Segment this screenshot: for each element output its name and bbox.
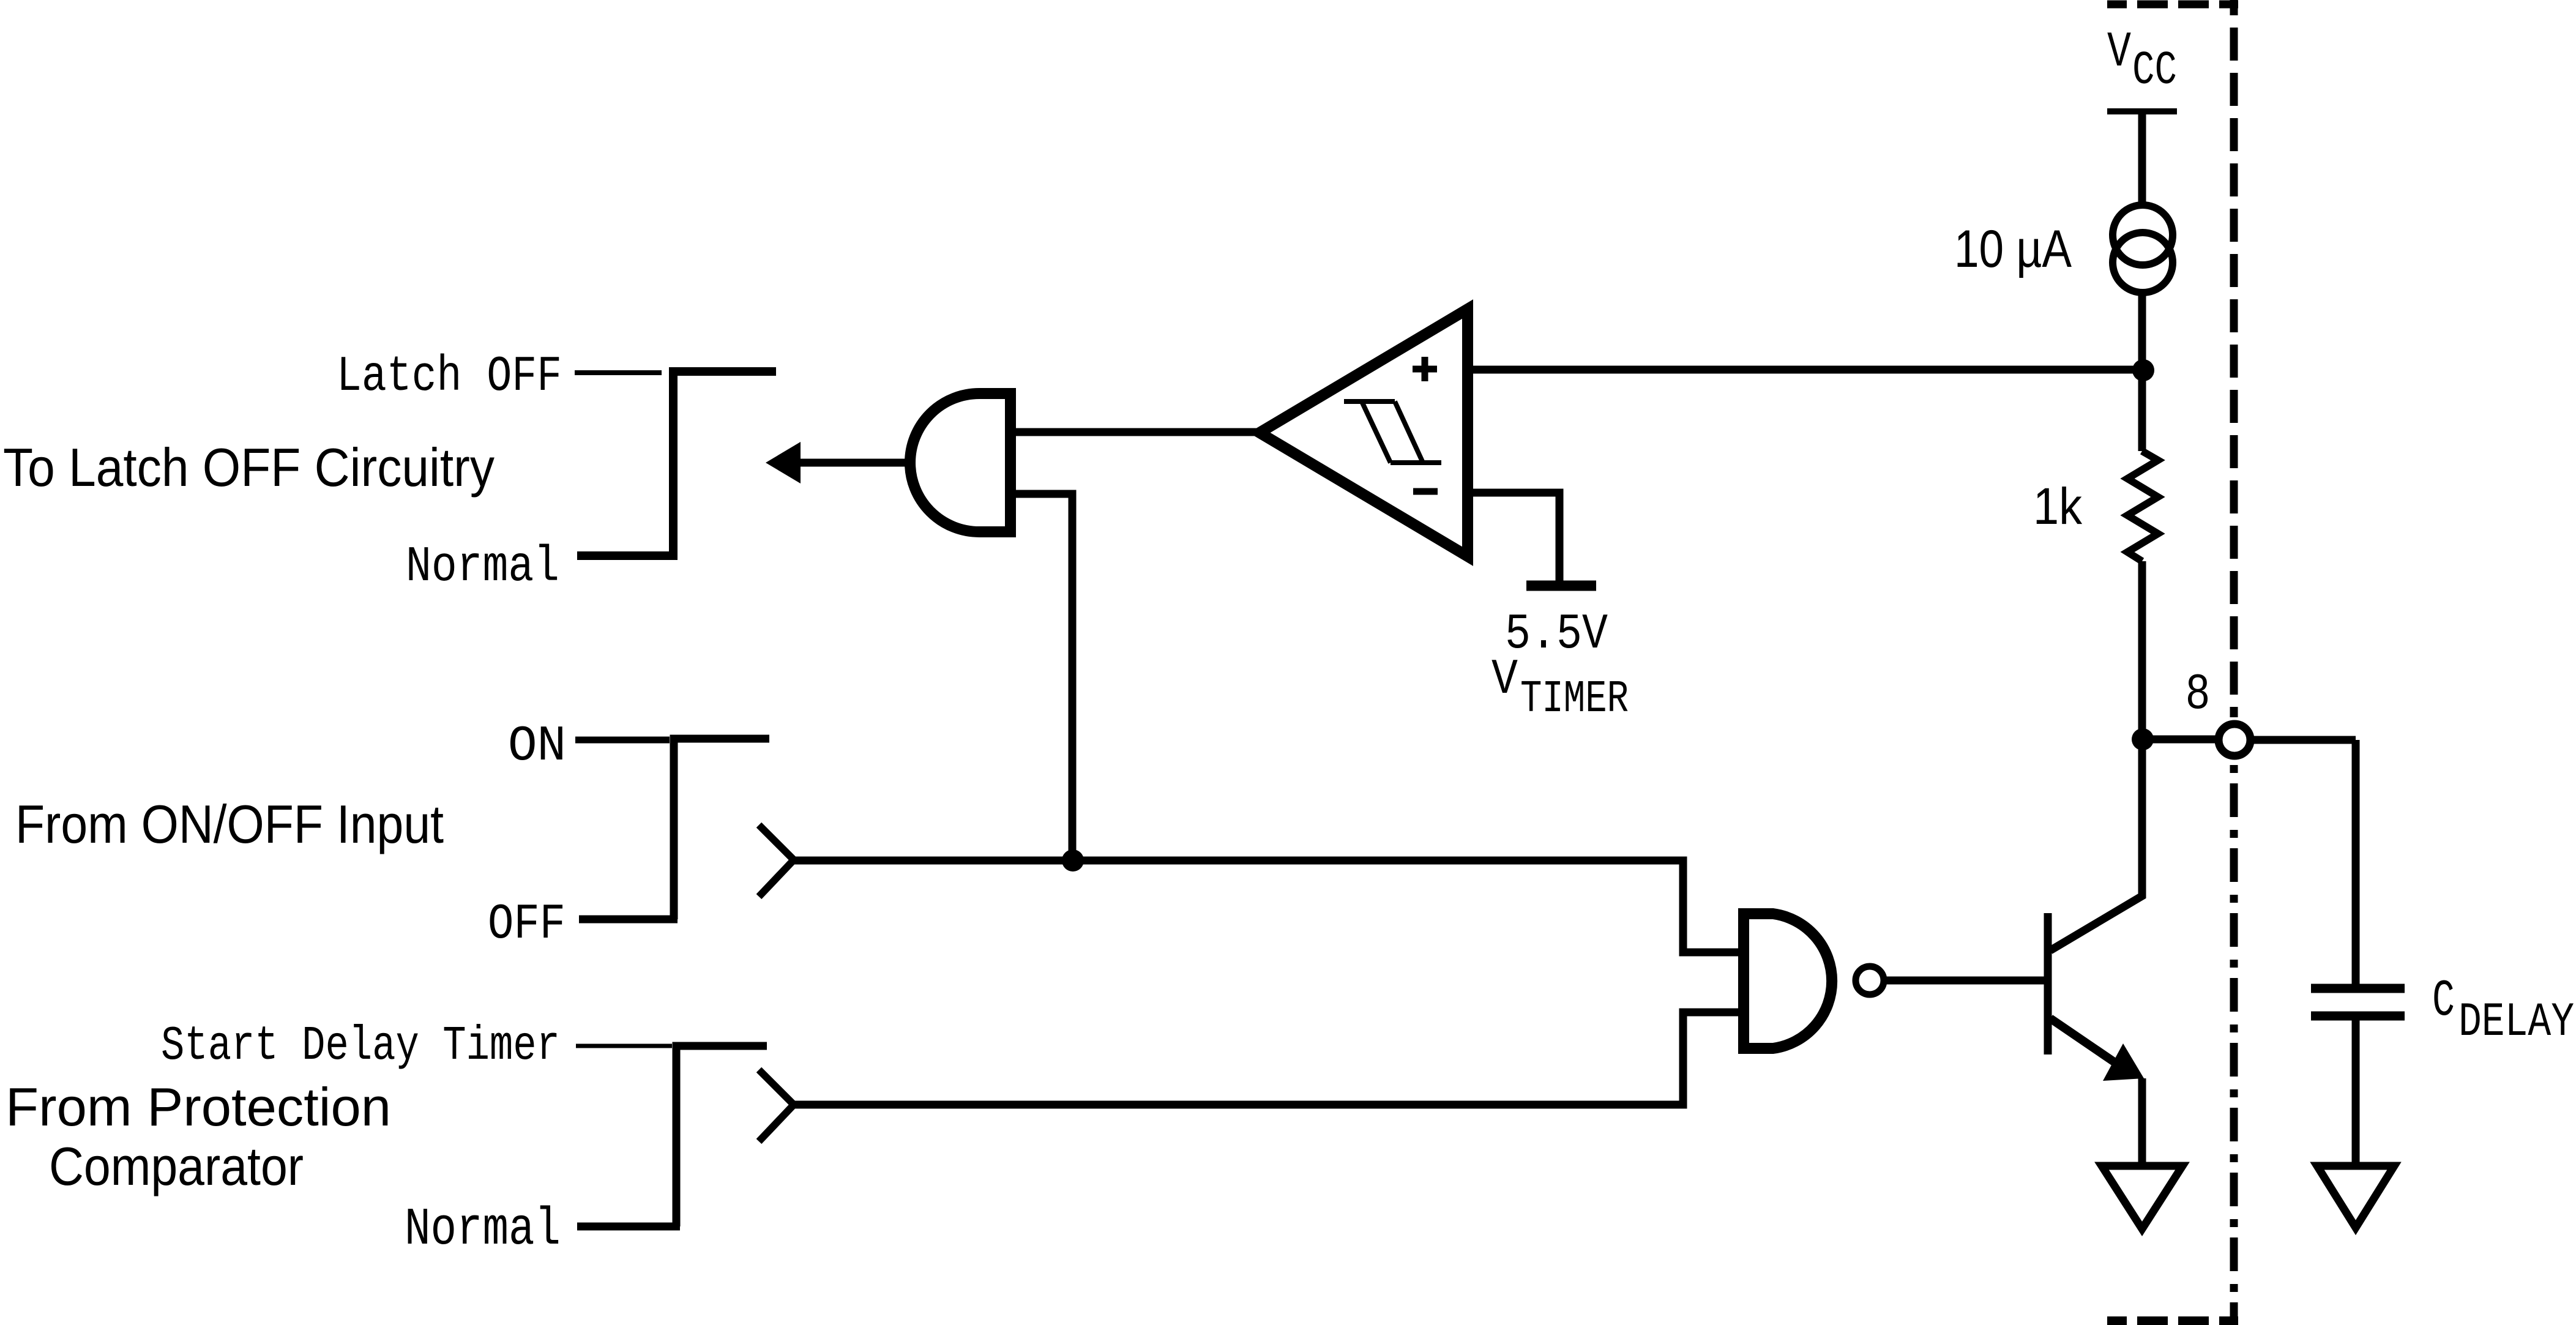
svg-text:C: C xyxy=(2432,972,2455,1031)
wire bracket protection comparator input xyxy=(676,1046,767,1226)
svg-text:1k: 1k xyxy=(2033,477,2083,535)
svg-text:Normal: Normal xyxy=(405,1200,561,1260)
svg-text:V: V xyxy=(1491,651,1518,708)
wire lead from Start Delay Timer label xyxy=(576,1044,672,1048)
svg-text:CC: CC xyxy=(2132,45,2177,98)
wire resistor to node B xyxy=(2138,561,2146,739)
resistor R1 1k xyxy=(2127,451,2158,561)
ground symbol for C_DELAY xyxy=(2317,1166,2394,1228)
pin + of comparator xyxy=(1413,357,1437,381)
wire protection to NAND bottom input xyxy=(794,1012,1740,1105)
wire AND bottom input down to ON/OFF node xyxy=(1015,494,1072,856)
transistor Q1 collector stroke xyxy=(2050,739,2142,950)
wire AND gate output xyxy=(797,459,911,467)
capacitor C_DELAY bottom plate xyxy=(2311,1012,2405,1021)
wire pin 8 to C_DELAY xyxy=(2253,736,2356,744)
node A junction dot xyxy=(2132,359,2154,381)
wire bracket for latch inputs (stub and vertical) xyxy=(673,371,776,560)
wire C_DELAY to ground xyxy=(2352,1020,2360,1166)
node junction dot on ON/OFF wire xyxy=(1062,849,1084,872)
wire down to C_DELAY xyxy=(2352,740,2360,987)
and-gate U1 (mirrored) xyxy=(910,394,1010,532)
IC boundary dashed border bottom xyxy=(2107,1316,2238,1325)
IC boundary dashed border vertical xyxy=(2230,0,2238,717)
ground symbol for Q1 emitter xyxy=(2102,1166,2182,1229)
svg-text:ON: ON xyxy=(508,718,566,775)
svg-text:OFF: OFF xyxy=(488,896,566,953)
pin 8 open circle xyxy=(2219,724,2250,756)
wire Q1 emitter to ground xyxy=(2138,1078,2146,1166)
svg-text:V: V xyxy=(2107,24,2131,81)
transistor Q1 emitter stroke xyxy=(2050,1018,2118,1064)
svg-text:5.5V: 5.5V xyxy=(1505,606,1608,663)
chevron input mark protection xyxy=(759,1070,794,1141)
wire VCC to current source xyxy=(2138,114,2146,206)
svg-text:Normal: Normal xyxy=(406,539,559,595)
current source I1 10uA xyxy=(2113,205,2173,265)
svg-text:From ON/OFF Input: From ON/OFF Input xyxy=(15,794,444,854)
wire NAND output to Q1 base xyxy=(1884,977,2045,985)
wire bracket ON/OFF input xyxy=(674,739,769,919)
svg-text:To Latch OFF Circuitry: To Latch OFF Circuitry xyxy=(3,437,495,498)
svg-text:Start Delay Timer: Start Delay Timer xyxy=(161,1018,560,1073)
arrowhead to latch off circuitry xyxy=(766,442,801,483)
wire lead from ON label xyxy=(575,737,670,744)
wire lead from Normal label (bottom) xyxy=(577,1223,680,1231)
capacitor C_DELAY top plate xyxy=(2311,984,2405,993)
wire lead from Latch OFF label xyxy=(575,370,662,375)
wire node A to resistor xyxy=(2138,370,2146,451)
svg-text:Latch OFF: Latch OFF xyxy=(337,348,562,405)
nand-gate output bubble xyxy=(1856,966,1884,995)
svg-text:From Protection: From Protection xyxy=(6,1077,391,1137)
transistor Q1 base bar xyxy=(2044,913,2052,1054)
transistor Q1 emitter arrowhead xyxy=(2103,1043,2144,1081)
svg-text:8: 8 xyxy=(2186,664,2209,718)
pin - of comparator xyxy=(1413,488,1438,495)
IC boundary dashed border top xyxy=(2107,1,2238,9)
wire - input to bias stub xyxy=(1473,493,1559,581)
svg-text:DELAY: DELAY xyxy=(2458,996,2574,1050)
node B junction dot xyxy=(2132,728,2154,750)
power VCC T-bar xyxy=(2107,108,2177,114)
comparator U2 xyxy=(1260,309,1468,556)
wire + input from timer node xyxy=(1473,366,2143,374)
wire ON/OFF to NAND top input xyxy=(794,860,1740,952)
svg-text:10 µA: 10 µA xyxy=(1954,220,2072,278)
wire node B to pin 8 xyxy=(2142,736,2216,744)
wire current source to node A xyxy=(2138,293,2146,373)
bias T-bar 5.5V xyxy=(1526,581,1596,591)
wire lead from Normal label (top) xyxy=(577,551,678,560)
hysteresis symbol inside comparator xyxy=(1344,401,1441,463)
svg-text:Comparator: Comparator xyxy=(49,1136,304,1196)
nand-gate U3 xyxy=(1744,914,1832,1048)
wire lead from OFF label xyxy=(579,916,678,924)
wire comparator output to AND input xyxy=(1014,428,1258,436)
chevron input mark ON/OFF xyxy=(759,825,794,897)
svg-text:TIMER: TIMER xyxy=(1520,674,1629,725)
